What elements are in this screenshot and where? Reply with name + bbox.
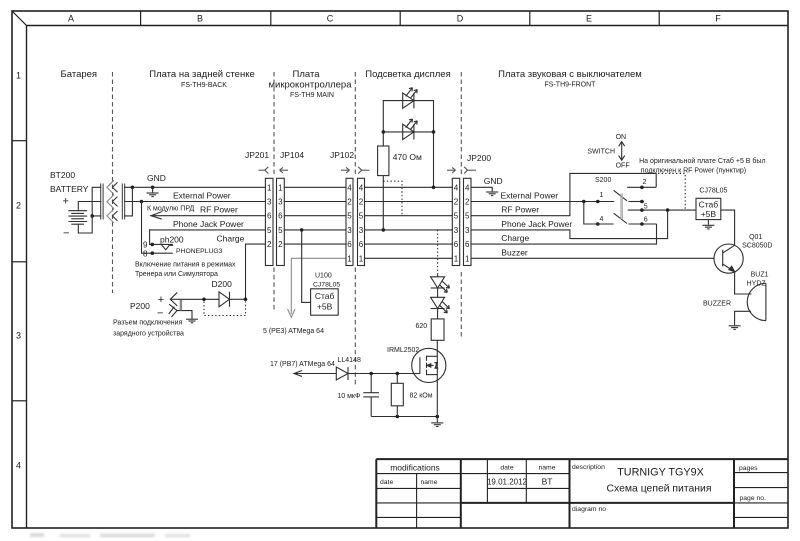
wire P200 minus to ground — [177, 311, 192, 319]
wire battery plus riser — [78, 202, 101, 211]
svg-text:JP104: JP104 — [280, 150, 304, 160]
wire GND row1 D — [365, 186, 453, 188]
wire bottom rail — [371, 416, 437, 418]
svg-text:Phone Jack Power: Phone Jack Power — [173, 219, 244, 229]
wire Charge row5 C — [284, 243, 346, 245]
junction dot battery connector top-right — [131, 186, 135, 190]
wire contact2 riser and RF loop — [570, 173, 656, 215]
wire LED2 to 620 — [437, 309, 439, 319]
svg-text:D200: D200 — [212, 279, 233, 289]
junction dot ph200 pin9 — [151, 243, 155, 247]
svg-text:1: 1 — [278, 183, 283, 192]
svg-text:JP201: JP201 — [245, 150, 269, 160]
wire External Power row2 B — [125, 201, 266, 203]
svg-text:External Power: External Power — [173, 191, 231, 201]
junction dot backlight left rail — [382, 130, 386, 134]
wire RF Power row3 B — [151, 215, 265, 217]
RF Power left arrowhead (to RF module) — [151, 212, 161, 219]
connector pair chevron contacts row1 — [107, 180, 114, 223]
wire backlight right rail to GND row — [433, 101, 435, 188]
MOSFET drain line through — [436, 340, 438, 416]
dotted alternative 470 Ом to RF Power — [383, 181, 402, 216]
svg-text:RF Power: RF Power — [200, 205, 238, 215]
svg-text:1: 1 — [16, 71, 21, 81]
wire Q01 emitter to buzzer — [735, 272, 752, 294]
wire LED1-LED2 — [437, 288, 439, 297]
resistor 470 Ом — [378, 146, 389, 176]
svg-text:Phone Jack Power: Phone Jack Power — [501, 219, 572, 229]
junction dot backlight right rail — [432, 130, 436, 134]
svg-text:10 мкФ: 10 мкФ — [337, 393, 360, 400]
wire Charge row5 D — [365, 243, 453, 245]
svg-text:3: 3 — [347, 226, 352, 235]
regulator U100 box Стаб +5В — [311, 289, 339, 315]
svg-text:Плата: Плата — [293, 69, 321, 80]
switch travel double arrow — [619, 142, 625, 161]
svg-text:U100: U100 — [315, 273, 332, 280]
svg-text:HYDZ: HYDZ — [747, 281, 767, 288]
svg-text:LL4148: LL4148 — [338, 357, 361, 364]
svg-text:P200: P200 — [130, 301, 150, 311]
wire P200 plus to D200 anode — [179, 298, 220, 300]
svg-text:3: 3 — [278, 198, 283, 207]
switch lever 1 — [614, 190, 627, 201]
junction dot ph200 pin8 — [151, 251, 155, 255]
svg-text:6: 6 — [267, 212, 272, 221]
svg-text:3: 3 — [16, 331, 21, 341]
connector JP200 left box — [452, 178, 459, 265]
svg-text:1: 1 — [347, 254, 352, 263]
svg-text:2: 2 — [643, 179, 647, 186]
svg-text:FS-TH9-BACK: FS-TH9-BACK — [181, 82, 227, 89]
wire Phone Jack Power loop to output — [570, 210, 668, 239]
svg-text:modifications: modifications — [390, 463, 440, 473]
battery BT200 cell bars long — [69, 210, 87, 212]
svg-text:BUZZER: BUZZER — [703, 301, 731, 308]
row ticks left strip — [12, 141, 27, 401]
JP104 pin labels 1 3 6 5 2 — [278, 183, 283, 249]
svg-text:name: name — [538, 465, 555, 472]
gate arrow to ATMega — [294, 371, 302, 377]
LED D? backlight 2 — [403, 119, 418, 140]
wire Buzzer row6 D — [365, 257, 453, 259]
svg-text:1: 1 — [454, 254, 459, 263]
svg-text:5: 5 — [278, 226, 283, 235]
junction dot switch pole 1 — [596, 200, 600, 204]
switch contact 2 stub — [627, 186, 656, 188]
svg-text:4: 4 — [454, 183, 459, 192]
svg-text:Стаб: Стаб — [699, 199, 719, 209]
svg-text:JP102: JP102 — [330, 150, 354, 160]
wire regulator output to Q01 collector — [721, 210, 735, 245]
ground symbol below buzzer — [729, 326, 741, 330]
connector P200 minus fork — [170, 305, 177, 317]
svg-text:SC8050D: SC8050D — [742, 243, 772, 250]
wire 470 Ом to Phone Jack Power row — [382, 176, 384, 230]
zone boundary dashed D|E lower — [460, 272, 462, 338]
wire Buzzer row6 to MCU (gray) — [288, 258, 346, 317]
svg-text:BATTERY: BATTERY — [50, 184, 89, 194]
svg-text:CJ78L05: CJ78L05 — [699, 188, 727, 195]
svg-text:CJ78L05: CJ78L05 — [313, 282, 340, 289]
svg-text:−: − — [157, 307, 163, 319]
junction dot D200 anode — [202, 298, 206, 302]
capacitor 10 мкФ — [363, 374, 379, 417]
dotted riser row4 to LED chain — [437, 230, 439, 274]
wire GND row1 E stub — [471, 186, 492, 188]
resistor 620 — [431, 319, 444, 340]
svg-text:5: 5 — [347, 212, 352, 221]
switch contact 6 stub — [628, 223, 656, 225]
svg-text:+: + — [63, 196, 69, 208]
JP201 pin labels 1 3 6 5 2 — [267, 183, 272, 249]
svg-text:4: 4 — [600, 216, 604, 223]
svg-text:2: 2 — [359, 198, 364, 207]
svg-text:6: 6 — [454, 240, 459, 249]
frame corner diagonal — [12, 11, 27, 26]
svg-text:6: 6 — [359, 240, 364, 249]
junction dot U100 riser — [300, 228, 304, 232]
svg-text:Charge: Charge — [217, 234, 245, 244]
junction dot 470 Ом on row4 — [382, 228, 386, 232]
LED D? backlight 1 — [403, 88, 418, 109]
svg-text:1: 1 — [359, 254, 364, 263]
svg-text:8: 8 — [143, 249, 148, 258]
svg-text:+: + — [158, 294, 164, 306]
junction dot throw 5 — [640, 208, 644, 212]
JP201 mate symbol (female) — [259, 167, 269, 174]
LED backlight lower 2 — [431, 297, 450, 313]
ground symbol at GND net — [147, 187, 159, 196]
wire buzzer bottom to ground — [735, 311, 751, 325]
junction dot contact 6 — [640, 222, 644, 226]
ground symbol zone E GND — [486, 187, 498, 195]
zone boundary dashed C|D lower — [354, 267, 356, 386]
junction dot D200 cathode / charge riser — [244, 298, 248, 302]
svg-text:description: description — [572, 464, 605, 471]
svg-text:FS-TH9-FRONT: FS-TH9-FRONT — [545, 82, 597, 89]
svg-text:1: 1 — [600, 192, 604, 199]
svg-text:IRML2502: IRML2502 — [387, 347, 419, 354]
svg-text:A: A — [68, 14, 74, 24]
wire GND row1 C — [284, 186, 346, 188]
svg-text:Charge: Charge — [501, 233, 529, 243]
zone boundary dashed D|E upper — [460, 72, 462, 176]
wire Charge riser to D200 — [245, 244, 247, 299]
svg-text:Плата звуковая с выключателем: Плата звуковая с выключателем — [498, 69, 642, 80]
svg-text:1: 1 — [267, 183, 272, 192]
wire ph200 pin9 stub — [152, 243, 172, 245]
svg-text:−: − — [63, 228, 69, 240]
wire connector right side link (top to bottom contact) — [125, 187, 133, 216]
wire RF Power row3 C — [284, 215, 346, 217]
svg-text:ON: ON — [616, 134, 627, 141]
wire contact6 riser to Charge — [656, 224, 658, 244]
junction dot contact 2 — [640, 186, 644, 190]
zone boundary dashed B|C lower — [273, 267, 275, 309]
wire Charge row5 E — [471, 243, 657, 245]
junction dot middle contact — [640, 200, 644, 204]
MOSFET internals — [412, 356, 439, 376]
svg-text:5: 5 — [359, 212, 364, 221]
zone boundary dashed B|C upper — [273, 72, 275, 176]
wire RF Power row3 D — [365, 215, 453, 217]
wire ph200 pin8 stub — [152, 252, 172, 254]
svg-text:ph200: ph200 — [160, 235, 184, 245]
svg-text:5: 5 — [644, 203, 648, 210]
svg-text:SWITCH: SWITCH — [587, 149, 615, 156]
junction dot 82k top — [396, 372, 400, 376]
Q01 internals — [723, 245, 735, 271]
junction dot GND tap — [151, 186, 155, 190]
svg-text:C: C — [327, 14, 334, 24]
JP200 left mate symbol (arrow right) — [447, 167, 456, 173]
diode LL4148 — [336, 367, 411, 380]
svg-text:Батарея: Батарея — [61, 69, 98, 80]
svg-text:BT: BT — [542, 477, 553, 487]
svg-text:микроконтроллера: микроконтроллера — [269, 80, 353, 91]
svg-text:620: 620 — [416, 323, 428, 330]
switch lever 2 — [614, 213, 627, 223]
svg-text:+5В: +5В — [701, 209, 717, 219]
wire output row (throw 5) to regulator — [628, 209, 696, 211]
JP104 mate symbol (arrow left) — [280, 167, 288, 173]
connector JP102 right box — [358, 178, 365, 265]
svg-text:3: 3 — [267, 198, 272, 207]
connector P200 plus fork — [169, 293, 192, 319]
svg-text:2: 2 — [267, 240, 272, 249]
svg-text:B: B — [197, 14, 203, 24]
wire External Power row2 E — [471, 201, 614, 203]
svg-text:PHONEPLUG3: PHONEPLUG3 — [176, 248, 223, 255]
wire Phone Jack Power row4 B — [150, 229, 266, 231]
svg-text:+5В: +5В — [317, 301, 333, 311]
svg-text:BUZ1: BUZ1 — [751, 272, 769, 279]
junction dot cap top — [369, 372, 373, 376]
svg-text:4: 4 — [16, 461, 21, 471]
svg-text:Подсветка дисплея: Подсветка дисплея — [365, 69, 450, 80]
buzzer BUZ1 symbol — [747, 283, 766, 320]
svg-text:page no.: page no. — [740, 495, 767, 502]
junction dot backlight rail on GND row — [432, 186, 436, 190]
junction dot output riser — [666, 208, 670, 212]
svg-text:RF Power: RF Power — [501, 205, 539, 215]
svg-text:TURNIGY TGY9X: TURNIGY TGY9X — [617, 467, 704, 479]
svg-text:3: 3 — [454, 226, 459, 235]
svg-text:date: date — [500, 465, 513, 472]
svg-text:2: 2 — [454, 198, 459, 207]
svg-text:6: 6 — [278, 212, 283, 221]
column ticks top strip — [141, 11, 660, 26]
svg-text:Q01: Q01 — [749, 234, 762, 241]
svg-text:External Power: External Power — [501, 191, 559, 201]
wire backlight left rail — [382, 101, 384, 146]
svg-text:19.01.2012: 19.01.2012 — [487, 478, 528, 487]
junction dot 82k bottom — [396, 415, 400, 419]
svg-text:5 (PE3) ATMega 64: 5 (PE3) ATMega 64 — [263, 328, 324, 335]
P200 plug body bar — [180, 300, 182, 311]
svg-text:К модулю ПРД: К модулю ПРД — [147, 206, 195, 213]
JP200 left pin labels — [454, 183, 459, 263]
svg-text:diagram no: diagram no — [572, 506, 606, 513]
junction dot MOSFET source rail — [436, 415, 440, 419]
JP102 left mate symbol (arrow right) — [341, 167, 350, 173]
svg-text:На оригинальной плате Стаб +5: На оригинальной плате Стаб +5 В был — [639, 157, 765, 165]
wire pole4 riser — [584, 202, 614, 225]
svg-text:name: name — [421, 479, 438, 486]
zone boundary dashed C|D upper — [354, 72, 356, 176]
JP102 left pin labels 4 2 5 3 6 1 — [347, 183, 352, 263]
svg-text:OFF: OFF — [616, 163, 630, 170]
svg-text:1: 1 — [465, 254, 470, 263]
svg-text:2: 2 — [278, 240, 283, 249]
wire Phone Jack Power row4 C — [284, 229, 346, 231]
svg-text:2: 2 — [347, 198, 352, 207]
svg-text:6: 6 — [644, 217, 648, 224]
LED chain lead — [437, 274, 439, 277]
svg-text:JP200: JP200 — [467, 153, 491, 163]
ph200 plug tick symbol — [162, 245, 173, 250]
wire gate from MCU — [294, 373, 336, 375]
svg-text:9: 9 — [143, 240, 148, 249]
ground symbol below regulator — [702, 220, 714, 229]
svg-text:Разъем подключения: Разъем подключения — [113, 320, 183, 327]
wire GND row1 B — [125, 186, 266, 188]
wire connector left C-shape (top/bottom contacts) — [92, 187, 101, 216]
svg-text:Стаб: Стаб — [315, 291, 335, 301]
svg-text:Включение питания в режимах: Включение питания в режимах — [135, 262, 236, 269]
dotted bypass around D200 — [204, 302, 246, 316]
JP200 right mate symbol (female right) — [464, 167, 476, 174]
svg-text:pages: pages — [739, 465, 758, 472]
svg-text:зарядного устройства: зарядного устройства — [113, 330, 184, 338]
connector JP201 box — [265, 178, 273, 265]
regulator U100 riser from Phone Jack Power — [302, 230, 311, 303]
wire Phone Jack Power row4 E — [471, 229, 570, 231]
JP200 right pin labels — [465, 183, 470, 263]
svg-text:E: E — [586, 14, 592, 24]
svg-text:2: 2 — [465, 198, 470, 207]
phone jack ph200 — [142, 202, 173, 254]
svg-text:D: D — [457, 14, 464, 24]
diode D200 — [219, 292, 246, 307]
LED backlight lower 1 — [431, 277, 450, 293]
svg-text:2: 2 — [16, 201, 21, 211]
svg-text:date: date — [380, 479, 393, 486]
switch middle contact stub — [628, 201, 644, 203]
transistor Q01 circle — [714, 244, 743, 273]
wire ph200 pin9 riser from Phone Jack Power — [150, 230, 153, 245]
svg-text:Buzzer: Buzzer — [501, 247, 528, 257]
junction dot battery connector bottom-left — [90, 214, 94, 218]
svg-text:F: F — [715, 14, 721, 24]
svg-text:подключен к RF Power (пунктир): подключен к RF Power (пунктир) — [641, 167, 746, 174]
JP102 right pin labels 4 2 5 3 6 1 — [359, 183, 364, 263]
svg-text:470 Ом: 470 Ом — [393, 152, 422, 162]
svg-text:4: 4 — [359, 183, 364, 192]
dotted alternative RF Power to regulator — [658, 173, 685, 210]
junction dot ext power branch — [582, 200, 586, 204]
JP102 right mate symbol (female right) — [358, 167, 369, 174]
svg-text:S200: S200 — [595, 177, 611, 184]
wire LED2 row — [383, 131, 433, 133]
battery BT200 cell bars short — [72, 212, 84, 214]
svg-text:5: 5 — [465, 212, 470, 221]
wire External Power row2 D — [365, 201, 453, 203]
junction dot switch pole 4 — [596, 222, 600, 226]
transistor IRML2502 circle — [412, 348, 446, 382]
wire Buzzer row6 E to Q01 base — [471, 257, 714, 259]
wire LED1 row — [383, 100, 433, 102]
svg-text:3: 3 — [465, 226, 470, 235]
svg-text:BT200: BT200 — [50, 170, 75, 180]
wire ph200 pin8 riser from External Power — [142, 202, 153, 254]
wire Phone Jack Power row4 D — [365, 229, 453, 231]
svg-text:Плата на задней стенке: Плата на задней стенке — [149, 69, 255, 80]
wire RF Power row3 E — [471, 215, 570, 217]
connector JP102 left box — [346, 178, 353, 265]
ground symbol below MOSFET — [431, 417, 443, 427]
ground symbol at P200 minus — [186, 319, 198, 323]
junction dot External Power / ph200 — [140, 200, 144, 204]
svg-text:82 кОм: 82 кОм — [410, 393, 433, 400]
svg-text:FS-TH9 MAIN: FS-TH9 MAIN — [290, 92, 334, 99]
zone boundary dashed A|B — [112, 72, 114, 293]
wire External Power row2 C — [284, 201, 346, 203]
svg-text:4: 4 — [465, 183, 470, 192]
resistor 82 кОм — [391, 374, 403, 417]
svg-text:6: 6 — [347, 240, 352, 249]
regulator box Стаб +5В — [696, 198, 721, 219]
svg-text:Схема цепей питания: Схема цепей питания — [607, 484, 712, 495]
watermark smudge bottom left — [30, 533, 190, 538]
switch link bar — [620, 194, 622, 220]
svg-text:GND: GND — [147, 173, 166, 183]
connector JP104 box — [277, 178, 285, 265]
wire Charge row5 B — [246, 243, 266, 245]
svg-text:5: 5 — [454, 212, 459, 221]
svg-text:4: 4 — [347, 183, 352, 192]
connector JP200 right box — [464, 178, 472, 265]
svg-text:6: 6 — [465, 240, 470, 249]
svg-text:Тренера или Симулятора: Тренера или Симулятора — [135, 271, 218, 278]
svg-text:5: 5 — [267, 226, 272, 235]
svg-text:17 (PB7) ATMega 64: 17 (PB7) ATMega 64 — [270, 361, 335, 368]
wire battery minus loop to connector — [78, 216, 92, 233]
svg-text:GND: GND — [484, 176, 503, 186]
svg-text:3: 3 — [359, 226, 364, 235]
